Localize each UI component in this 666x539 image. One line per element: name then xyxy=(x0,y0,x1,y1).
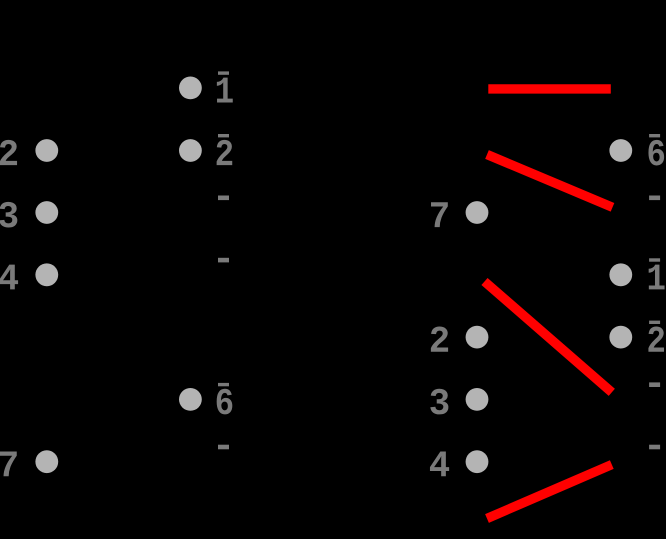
label S2 overbar xyxy=(649,321,660,324)
node R3 dot xyxy=(466,388,489,411)
label M6 overbar xyxy=(218,383,229,386)
label L7 digit 7 xyxy=(0,451,17,476)
node L3 dot xyxy=(35,201,58,224)
node R7 dot xyxy=(466,201,489,224)
node L7 dot xyxy=(35,450,58,473)
node L4 dot xyxy=(35,263,58,286)
edge E4 (row8 to row7, diagonal) xyxy=(487,465,612,519)
node S6 dot xyxy=(609,139,632,162)
node L2 dot xyxy=(35,139,58,162)
label M1 overbar xyxy=(218,71,229,74)
label L2 digit 2 xyxy=(0,140,17,165)
label L3 digit 3 xyxy=(0,202,17,228)
label R2 digit 2 xyxy=(431,326,448,351)
node M1 dot xyxy=(179,77,202,100)
edge E3 (row4 to row6, diagonal) xyxy=(485,282,612,393)
label M2 overbar xyxy=(218,134,229,137)
edge E2 (row2 to row3, diagonal) xyxy=(487,155,613,208)
label S7 (hidden row, dash only) overbar xyxy=(649,445,660,450)
node S2 dot xyxy=(609,326,632,349)
label R3 digit 3 xyxy=(430,389,448,415)
label S1 digit 1 xyxy=(649,265,665,290)
edge E1 (row1 to row1, horizontal) xyxy=(488,84,611,93)
node R2 dot xyxy=(466,326,489,349)
label L4 digit 4 xyxy=(0,265,18,290)
label M3 (hidden row, dash only) overbar xyxy=(218,196,229,201)
label M4 (hidden row, dash only) overbar xyxy=(218,258,229,263)
label M2 digit 2 xyxy=(217,140,233,165)
label S3 (hidden row, dash only) overbar xyxy=(649,196,660,201)
label S6 overbar xyxy=(649,134,660,137)
node S1 dot xyxy=(609,263,632,286)
label M6 digit 6 xyxy=(217,389,233,415)
label S6b (hidden row, dash only) overbar xyxy=(649,382,660,387)
label R4 digit 4 xyxy=(430,451,449,476)
node R4 dot xyxy=(466,450,489,473)
label S2 digit 2 xyxy=(648,326,664,351)
label R7 digit 7 xyxy=(431,202,448,227)
label S1 overbar xyxy=(649,258,660,261)
node M6 dot xyxy=(179,388,202,411)
label M7 (hidden row, dash only) overbar xyxy=(218,445,229,450)
label S6 digit 6 xyxy=(648,140,664,166)
node M2 dot xyxy=(179,139,202,162)
label M1 digit 1 xyxy=(217,78,233,103)
